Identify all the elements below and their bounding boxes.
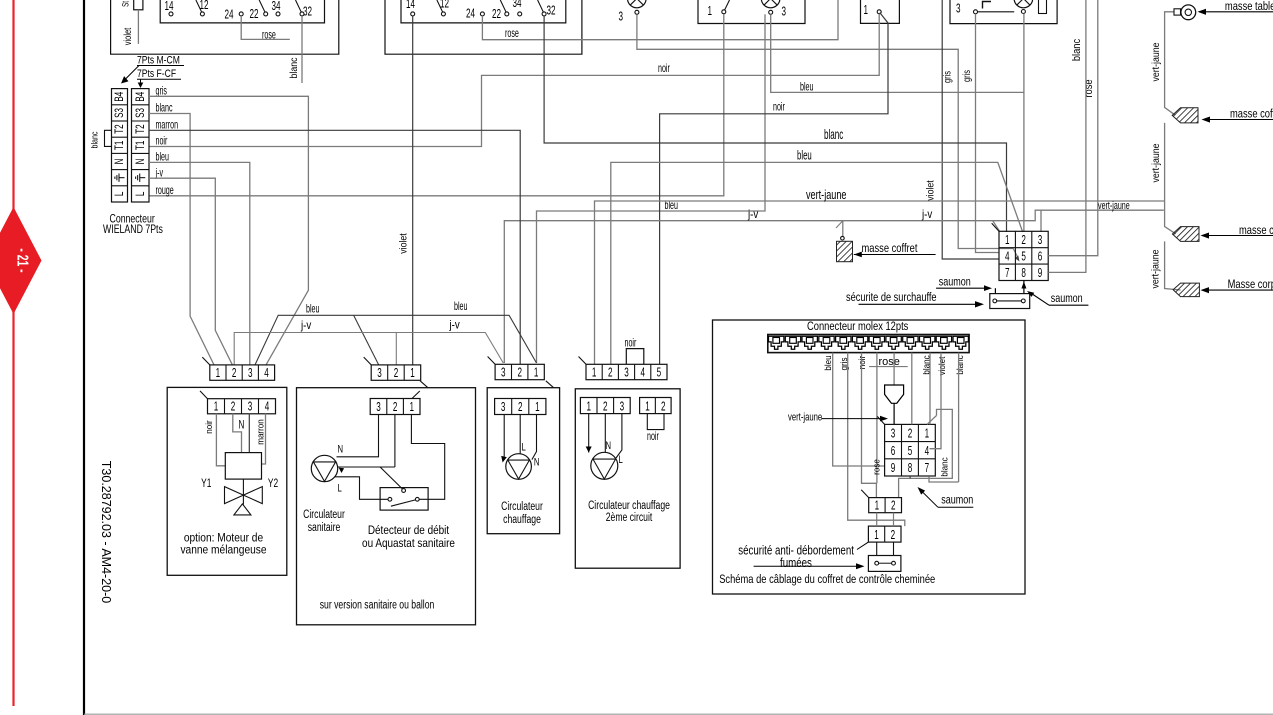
svg-text:T1: T1 [114, 140, 127, 150]
svg-text:2: 2 [393, 401, 398, 415]
svg-text:j-v: j-v [300, 319, 312, 332]
svg-text:1: 1 [1005, 233, 1010, 247]
svg-text:2: 2 [603, 400, 608, 414]
svg-text:blanc: blanc [88, 132, 99, 149]
svg-text:1: 1 [214, 400, 219, 414]
svg-text:noir: noir [658, 62, 670, 75]
svg-text:noir: noir [156, 135, 168, 148]
svg-text:saumon: saumon [941, 493, 973, 507]
svg-text:Masse corps: Masse corps [1228, 278, 1273, 291]
svg-text:4: 4 [265, 400, 270, 414]
svg-text:1: 1 [534, 366, 539, 380]
svg-text:L: L [522, 441, 526, 454]
svg-text:1: 1 [645, 400, 650, 414]
svg-text:4: 4 [1005, 250, 1010, 264]
svg-text:B4: B4 [134, 91, 147, 101]
svg-text:bleu: bleu [800, 81, 813, 94]
svg-text:- 21 -: - 21 - [14, 248, 32, 272]
svg-text:8: 8 [1021, 266, 1026, 280]
svg-text:noir: noir [203, 420, 214, 433]
svg-text:violet: violet [122, 27, 133, 45]
svg-text:masse tableau: masse tableau [1225, 0, 1273, 13]
svg-text:violet: violet [937, 356, 948, 375]
svg-text:B4: B4 [114, 91, 127, 101]
svg-text:gris: gris [961, 69, 972, 82]
svg-text:blanc: blanc [1071, 39, 1083, 61]
svg-text:2: 2 [518, 401, 523, 415]
svg-text:saumon: saumon [939, 275, 971, 289]
svg-text:masse coffret: masse coffret [862, 242, 918, 255]
svg-text:1: 1 [925, 427, 930, 441]
svg-text:blanc: blanc [287, 57, 299, 78]
svg-text:14: 14 [165, 0, 174, 13]
svg-text:rose: rose [505, 27, 519, 40]
svg-text:noir: noir [625, 337, 637, 350]
svg-text:WIELAND 7Pts: WIELAND 7Pts [103, 223, 163, 237]
svg-text:3: 3 [1038, 233, 1043, 247]
svg-text:Circulateur chauffage: Circulateur chauffage [588, 500, 670, 513]
svg-text:3: 3 [782, 5, 787, 19]
svg-text:6: 6 [1038, 250, 1043, 264]
svg-text:5: 5 [908, 444, 913, 458]
svg-text:sécurite de surchauffe: sécurite de surchauffe [846, 291, 937, 304]
svg-text:22: 22 [492, 7, 501, 21]
svg-text:option: Moteur de: option: Moteur de [184, 532, 263, 545]
svg-text:34: 34 [272, 0, 281, 13]
svg-text:Y1: Y1 [201, 478, 211, 491]
svg-text:chauffage: chauffage [503, 514, 541, 527]
svg-text:2: 2 [908, 427, 913, 441]
svg-text:T2: T2 [134, 124, 147, 134]
svg-text:L: L [134, 191, 147, 196]
svg-text:2: 2 [517, 366, 522, 380]
svg-text:vert-jaune: vert-jaune [1098, 200, 1130, 212]
svg-text:gris: gris [941, 70, 952, 83]
svg-text:T30.28792.03 - AM4-20-0: T30.28792.03 - AM4-20-0 [99, 461, 113, 603]
svg-text:2: 2 [608, 366, 613, 380]
svg-text:3: 3 [376, 401, 381, 415]
svg-text:N: N [606, 440, 612, 453]
svg-text:j-v: j-v [449, 319, 461, 332]
svg-text:1: 1 [592, 366, 597, 380]
svg-text:rose: rose [871, 459, 882, 475]
svg-text:3: 3 [501, 401, 506, 415]
svg-text:3: 3 [377, 366, 382, 380]
svg-text:N: N [534, 456, 540, 469]
svg-text:vert-jaune: vert-jaune [1149, 42, 1161, 81]
svg-text:vert-jaune: vert-jaune [1149, 249, 1161, 288]
svg-text:bleu: bleu [797, 149, 812, 164]
svg-text:3: 3 [620, 400, 625, 414]
svg-text:bleu: bleu [454, 300, 467, 313]
svg-text:1: 1 [875, 499, 880, 513]
svg-text:noir: noir [773, 101, 785, 114]
svg-text:2: 2 [1021, 233, 1026, 247]
svg-text:sur version sanitaire ou ballo: sur version sanitaire ou ballon [320, 599, 435, 612]
svg-text:blanc: blanc [824, 128, 844, 143]
svg-text:T2: T2 [114, 124, 127, 134]
svg-text:blanc: blanc [954, 355, 965, 375]
svg-text:1: 1 [864, 3, 869, 17]
svg-text:3: 3 [891, 427, 896, 441]
svg-text:T1: T1 [134, 140, 147, 150]
svg-text:rouge: rouge [156, 184, 174, 197]
svg-text:St: St [120, 0, 131, 6]
svg-text:S3: S3 [134, 108, 147, 118]
svg-text:N: N [114, 159, 127, 165]
svg-text:1: 1 [216, 366, 221, 380]
svg-text:3: 3 [501, 366, 506, 380]
svg-text:bleu: bleu [306, 303, 319, 316]
svg-text:7: 7 [925, 461, 930, 475]
svg-text:32: 32 [303, 5, 312, 19]
svg-text:vert-jaune: vert-jaune [788, 411, 822, 424]
svg-text:9: 9 [891, 461, 896, 475]
svg-text:S3: S3 [114, 108, 127, 118]
svg-text:masse circulateur: masse circulateur [1239, 224, 1273, 237]
svg-text:bleu: bleu [823, 355, 834, 370]
svg-text:fumées: fumées [780, 557, 812, 570]
svg-text:L: L [338, 482, 342, 495]
svg-text:Connecteur molex 12pts: Connecteur molex 12pts [807, 320, 908, 333]
svg-text:rose: rose [1083, 79, 1095, 97]
svg-text:masse coffret: masse coffret [1230, 107, 1273, 120]
svg-text:2ème circuit: 2ème circuit [606, 512, 653, 525]
svg-text:14: 14 [406, 0, 415, 12]
svg-text:rose: rose [262, 29, 276, 42]
svg-text:1: 1 [586, 400, 591, 414]
svg-text:Y2: Y2 [268, 478, 278, 491]
svg-text:1: 1 [410, 366, 415, 380]
svg-text:1: 1 [535, 401, 540, 415]
svg-text:N: N [134, 159, 147, 165]
svg-text:violet: violet [924, 180, 936, 201]
svg-text:j-v: j-v [747, 209, 759, 222]
svg-text:9: 9 [1038, 266, 1043, 280]
svg-text:vert-jaune: vert-jaune [1149, 143, 1161, 182]
svg-text:violet: violet [397, 233, 409, 254]
svg-text:sanitaire: sanitaire [308, 522, 341, 535]
svg-text:j-v: j-v [921, 209, 933, 222]
svg-text:1: 1 [874, 528, 879, 542]
svg-text:2: 2 [661, 400, 666, 414]
svg-text:4: 4 [925, 444, 930, 458]
svg-text:L: L [114, 191, 127, 196]
svg-text:8: 8 [908, 461, 913, 475]
svg-text:Détecteur de débit: Détecteur de débit [368, 524, 449, 537]
svg-text:2: 2 [891, 528, 896, 542]
svg-text:24: 24 [225, 8, 234, 22]
svg-text:1: 1 [409, 401, 414, 415]
svg-text:2: 2 [231, 400, 236, 414]
svg-text:Schéma de câblage du coffret d: Schéma de câblage du coffret de contrôle… [719, 573, 935, 586]
svg-text:noir: noir [647, 430, 659, 443]
svg-text:L: L [619, 454, 623, 467]
svg-text:7Pts F-CF: 7Pts F-CF [137, 68, 176, 80]
svg-text:34: 34 [513, 0, 522, 11]
svg-text:Circulateur: Circulateur [303, 509, 345, 522]
svg-text:Circulateur: Circulateur [501, 501, 543, 514]
svg-text:3: 3 [624, 366, 629, 380]
svg-text:2: 2 [394, 366, 399, 380]
svg-text:22: 22 [250, 7, 259, 21]
svg-text:3: 3 [248, 400, 253, 414]
svg-text:2: 2 [232, 366, 237, 380]
svg-text:vert-jaune: vert-jaune [806, 189, 846, 203]
svg-text:blanc: blanc [939, 457, 950, 477]
svg-text:5: 5 [657, 366, 662, 380]
svg-text:saumon: saumon [1051, 292, 1083, 306]
svg-text:3: 3 [956, 2, 961, 16]
svg-text:3: 3 [248, 366, 253, 380]
svg-text:6: 6 [891, 444, 896, 458]
svg-text:1: 1 [708, 4, 713, 18]
svg-text:4: 4 [264, 366, 269, 380]
svg-text:N: N [239, 419, 245, 432]
svg-text:24: 24 [466, 7, 475, 21]
svg-text:5: 5 [1021, 250, 1026, 264]
svg-text:4: 4 [640, 366, 645, 380]
svg-text:N: N [338, 443, 344, 456]
svg-text:7: 7 [1005, 266, 1010, 280]
svg-text:3: 3 [619, 10, 624, 24]
svg-text:marron: marron [255, 419, 266, 445]
svg-text:2: 2 [891, 499, 896, 513]
svg-text:ou Aquastat sanitaire: ou Aquastat sanitaire [362, 537, 455, 550]
svg-text:32: 32 [547, 4, 556, 18]
svg-text:vanne mélangeuse: vanne mélangeuse [180, 544, 266, 557]
